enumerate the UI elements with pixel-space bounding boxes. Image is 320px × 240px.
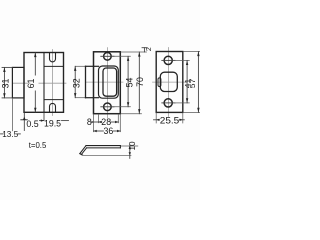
left view: bottom U notch (50, 103, 56, 112)
dim 10 ext top (121, 145, 138, 147)
left view: dim 31 line (3, 67, 5, 98)
left view: dim 19.5 line segs (40, 120, 45, 122)
left view: box outline (24, 53, 64, 113)
middle view: top hole (104, 53, 112, 61)
middle view: 70 extensions (121, 51, 147, 53)
middle view: bottom hole (104, 103, 112, 111)
right view: centerline horizontal (153, 81, 187, 83)
left view: 0.5 extension (23, 113, 25, 131)
middle view: dim 54 line (127, 56, 129, 107)
middle view: dim 32 line (74, 66, 76, 97)
left view: centerline vertical (52, 50, 54, 116)
right view: 25.5 ext lines (155, 113, 157, 123)
svg-text:8: 8 (87, 117, 92, 127)
svg-text:36: 36 (104, 126, 114, 136)
middle view: 32 extension top (75, 65, 85, 67)
svg-text:19.5: 19.5 (44, 118, 61, 128)
left view: divider (43, 53, 45, 113)
middle view: lip bottom line (86, 97, 99, 99)
left view: 31 extension bottom (2, 97, 12, 99)
middle view: inner slot (103, 68, 117, 96)
left view: dim 13.5 segs (1, 133, 4, 135)
left view: top U notch (50, 53, 56, 62)
svg-text:32: 32 (72, 78, 82, 88)
middle view: lip left edge (85, 66, 87, 97)
left view: 19.5 extension (43, 113, 45, 121)
middle view: 32 extension bottom (75, 97, 85, 99)
middle view: dim 70 line (138, 52, 140, 114)
dim 2 (142, 47, 147, 49)
svg-text:25.5: 25.5 (160, 115, 180, 125)
left view: dim 61 line (34, 53, 36, 113)
middle view: dim 28 line (99, 121, 102, 123)
svg-text:57: 57 (188, 79, 197, 89)
right view: dim 41 line (186, 60, 188, 103)
right view: dim 57 line (197, 52, 199, 113)
bent strip bottom line (87, 147, 121, 149)
right view: top hole (164, 56, 172, 64)
svg-text:70: 70 (135, 77, 145, 87)
right view: slot tab (158, 78, 161, 87)
right view: dim 25.5 line (154, 119, 160, 121)
middle view: outer slot (99, 66, 119, 98)
right view: 41 extensions (175, 59, 189, 61)
bent strip top line (86, 145, 120, 147)
text 61 (31, 76, 39, 91)
left view: lip (12, 67, 24, 98)
dim 10 line (129, 146, 131, 159)
bent strip right cap (119, 146, 121, 148)
middle view: lip top line (86, 65, 99, 67)
left view: 31 extension top (2, 66, 12, 68)
right view: centerline vertical (168, 48, 170, 117)
svg-text:31: 31 (1, 79, 11, 89)
svg-text:13.5: 13.5 (2, 130, 18, 139)
right view: 57 extensions (184, 51, 201, 53)
svg-text:61: 61 (26, 79, 36, 89)
dim 10 bottom ref (83, 154, 132, 156)
svg-text:54: 54 (124, 78, 134, 88)
middle view: 54 extensions (112, 55, 130, 57)
middle view: bottom ext lines (93, 114, 95, 131)
svg-text:0.5: 0.5 (26, 119, 38, 129)
middle view: centerline vertical (106, 48, 108, 118)
left view: centerline horizontal (13, 82, 66, 84)
right view: bottom hole (164, 99, 172, 107)
left view: strip inner line top (44, 65, 64, 67)
middle view: centerline horizontal (86, 81, 123, 83)
left view: strip inner line bottom (44, 99, 64, 101)
left view: 0.5 arrow ticks (21, 119, 28, 121)
right view: plate outline (156, 52, 183, 113)
left view: 13.5 extensions (11, 99, 13, 131)
middle view: dim 36 line (94, 130, 104, 132)
svg-text:10: 10 (128, 141, 137, 151)
bent strip tip (80, 154, 83, 156)
bent strip diagonal (80, 146, 86, 154)
svg-text:2: 2 (146, 47, 153, 51)
middle view: dim 8 line (92, 121, 99, 123)
middle view: plate outline (94, 52, 121, 114)
right view: slot main (160, 72, 177, 91)
svg-text:t=0.5: t=0.5 (29, 141, 47, 150)
